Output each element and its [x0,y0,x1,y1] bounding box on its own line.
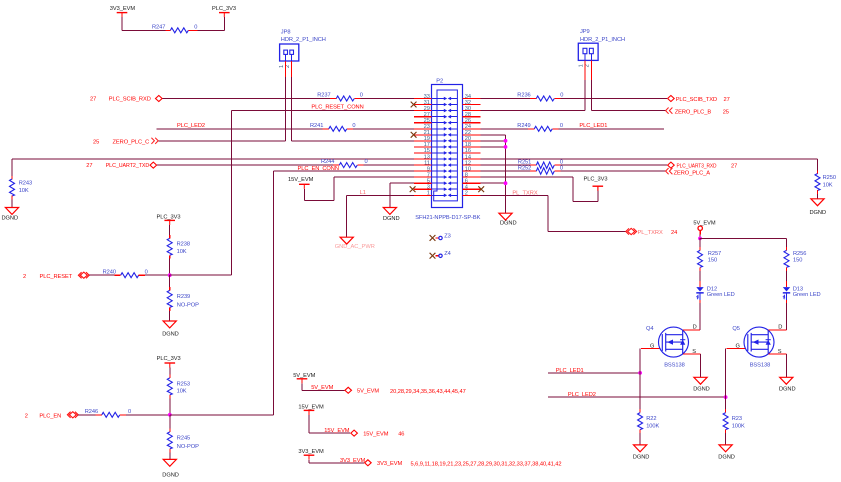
svg-text:0: 0 [352,123,355,129]
wire D12 to Q4 drain [699,303,701,330]
svg-text:29: 29 [424,106,430,112]
JP8 pin 2 square [290,50,294,54]
wire R252 to ZERO_PLC_A port [561,170,666,172]
junction PLC_LED1/Q4 gate [638,371,642,375]
wire P2 pin12 to R251 [481,164,531,166]
wire JP8 pin 2 to P2 pin 19 [292,140,415,142]
wire R238 to junction [169,259,171,276]
svg-text:PLC_RESET_CONN: PLC_RESET_CONN [311,105,363,111]
P2 pin 22 (right) stub and arrow [463,134,481,136]
svg-text:25: 25 [93,139,99,145]
svg-text:Z4: Z4 [444,251,451,257]
wire gate junction down to R22 [639,373,641,409]
resistor R243 10K [11,176,13,179]
LED D12 Green LED [699,281,701,287]
wire pin8 down [572,177,574,201]
wire ZERO_PLC_C to JP8 pin 1 [158,140,285,142]
wire 5V_EVM down [301,383,303,390]
P2 pin 6 (right) stub and arrow [463,182,481,184]
wire R23 to DGND [725,433,727,445]
svg-text:PLC_EN: PLC_EN [39,414,61,420]
resistor resistor R236 0 ohm [530,98,536,100]
svg-text:R237: R237 [317,93,330,99]
P2 pin 2 (right) stub and arrow [463,194,481,196]
power symbol PLC_3V3 (above R253) [165,363,176,368]
wire Q5 source to DGND [785,354,787,377]
P2 pin 33 (left) stub and arrow [414,98,432,100]
wire L1 to P2 pin 1 [347,194,414,196]
port PLC_SCIB_TXD (diamond) [668,96,675,102]
wire Q5 gate down to junction [725,349,727,398]
wire L1 vertical [346,195,348,237]
test point Z3 [436,237,439,239]
svg-text:100K: 100K [646,423,659,429]
svg-text:DGND: DGND [718,454,735,460]
svg-text:0: 0 [365,159,368,165]
svg-text:R246: R246 [85,409,98,415]
JP9 pin 2 square [589,48,593,53]
JP8 pin 2 lead [291,54,293,61]
svg-text:20: 20 [465,136,471,142]
svg-text:26: 26 [465,118,471,124]
wire P2 pin14 net long horizontal [481,158,818,160]
P2 pin 9 (left) stub and arrow [414,170,432,172]
wire up to PLC_3V3 [223,17,225,30]
svg-text:10K: 10K [177,389,187,395]
svg-text:NO-POP: NO-POP [177,303,199,309]
P2 pin 31 (left) stub and arrow [414,104,432,106]
junction pin18/DGND bus [504,145,508,149]
P2 pin 32 (right) stub and arrow [463,104,481,106]
wire 15V_EVM up [333,177,335,201]
junction 5V branch [698,237,702,241]
no-connect X for Z4 [430,253,436,259]
wire P2 pin6 to DGND bus [481,182,506,184]
Q5 source lead [769,353,787,355]
port PLC_UART2_TXD (diamond) [150,162,157,168]
jumper JP8 body [280,44,299,61]
svg-text:4: 4 [465,185,468,191]
svg-text:GND_AC_PWR: GND_AC_PWR [335,244,375,250]
resistor R239 NO-POP [169,287,171,290]
wire JP9 pin2 to ZERO_PLC_B port [591,110,665,112]
svg-text:DGND: DGND [779,386,796,392]
P2 pin 21 (left) stub and arrow [414,134,432,136]
wire PL_TXRX to port [548,231,626,233]
resistor R240 0 ohm [114,274,120,276]
svg-text:15V_EVM: 15V_EVM [363,432,389,438]
wire junction down to R245 [169,415,171,429]
svg-text:0: 0 [560,123,563,129]
svg-text:3: 3 [427,185,430,191]
svg-text:PLC_3V3: PLC_3V3 [157,356,181,362]
svg-text:2: 2 [465,191,468,197]
wire R250 to DGND [817,194,819,199]
svg-text:PL_TXRX: PL_TXRX [638,230,663,236]
wire DGND bus vertical [505,135,507,213]
resistor R246 0 ohm [96,414,102,416]
svg-text:R22: R22 [646,416,656,422]
svg-text:1: 1 [427,191,430,197]
svg-text:R252: R252 [518,165,531,171]
wire PLC_SCIB_RXD to R237 [163,98,330,100]
resistor R250 10K [817,171,819,174]
svg-text:3V3_EVM: 3V3_EVM [377,461,403,467]
power symbol 5V_EVM (rail) [297,379,308,384]
wire R247 to PLC_3V3 [198,29,225,31]
svg-text:R243: R243 [19,180,32,186]
svg-text:27: 27 [724,97,730,103]
power symbol PLC_3V3 (top left) [219,13,230,18]
wire 15V_EVM horizontal [304,200,334,202]
P2 pin 24 (right) stub and arrow [463,128,481,130]
svg-text:HDR_2_P1_INCH: HDR_2_P1_INCH [580,37,625,43]
svg-text:P2: P2 [436,79,443,85]
P2 pin 15 (left) stub and arrow [414,152,432,154]
wire gate junction down to R23 [725,397,727,409]
port ZERO_PLC_B (double chevron) [666,108,673,114]
svg-text:0: 0 [145,270,148,276]
resistor resistor R252 0 ohm [530,170,536,172]
P2 pin 28 (right) stub and arrow [463,116,481,118]
svg-text:20,28,29,34,35,36,43,44,45,47: 20,28,29,34,35,36,43,44,45,47 [390,389,466,395]
svg-text:HDR_2_P1_INCH: HDR_2_P1_INCH [281,37,326,43]
port 5V_EVM (diamond) [345,387,352,393]
P2 pin 8 (right) stub and arrow [463,176,481,178]
jumper JP9 body [578,43,598,60]
wire pin8 horizontal [573,200,598,202]
svg-text:Q5: Q5 [732,326,739,332]
resistor R256 150 [786,247,788,250]
connector P2 inner outline with key notch [434,90,458,201]
connector P2 outer body [432,85,463,208]
wire P2 pin22 to DGND bus [481,134,506,136]
port 3V3_EVM (diamond) [365,460,372,466]
junction PLC_EN node [168,413,172,417]
svg-text:15V_EVM: 15V_EVM [288,177,314,183]
wire R236 to PLC_SCIB_TXD port [561,98,667,100]
junction PLC_LED2/Q5 gate [724,395,728,399]
junction PLC_RESET node [168,273,172,277]
no-connect X on P2 pin 21 [411,132,417,138]
svg-text:R241: R241 [310,123,323,129]
wire R240 to junction [145,274,170,276]
svg-text:19: 19 [424,136,430,142]
svg-text:15V_EVM: 15V_EVM [324,428,350,434]
wire PLC_LED1 to Q4 gate node [548,372,640,374]
svg-text:5V_EVM: 5V_EVM [311,385,333,391]
ground GND_AC_PWR [340,237,353,244]
svg-text:PLC_3V3: PLC_3V3 [212,6,236,12]
wire PLC_EN to R246 [78,414,96,416]
wire PLC_EN_CONN vertical [273,171,275,415]
ground DGND (R245) [163,459,176,466]
svg-text:2: 2 [23,274,26,280]
wire P2 pin13 net long horizontal [12,158,414,160]
resistor resistor R251 0 ohm [530,164,536,166]
wire R237 to P2 pin 33 [361,98,414,100]
Q4 gate lead [641,348,659,350]
transistor Q4 BSS138 [659,327,689,357]
wire P2 pin24 to R249 [481,128,529,130]
resistor R247 0 ohm [165,29,170,31]
power symbol 15V_EVM (rail) [304,410,315,415]
svg-text:R245: R245 [177,436,190,442]
P2 pin 11 (left) stub and arrow [414,164,432,166]
ground DGND (Q4 source) [694,377,707,384]
svg-text:DGND: DGND [162,472,179,478]
wire PLC_RESET_CONN vertical [231,111,233,276]
resistor R241 0 ohm [323,128,329,130]
wire D13 to Q5 drain [786,303,788,330]
wire R244 to P2 pin 11 [364,164,414,166]
port 15V_EVM (diamond) [351,430,358,436]
P2 pin 34 (right) stub and arrow [463,98,481,100]
LED D13 Green LED [786,281,788,287]
svg-text:Green LED: Green LED [707,292,735,298]
svg-text:JP8: JP8 [281,30,291,36]
resistor R237 0 ohm [330,98,336,100]
svg-text:15: 15 [424,148,430,154]
wire P2 pin10 to R252 [481,170,531,172]
svg-text:R257: R257 [708,251,721,257]
Q5 gate lead [727,348,745,350]
wire 3V3_EVM down [308,460,310,463]
resistor R244 0 ohm [333,164,339,166]
svg-text:10K: 10K [19,188,29,194]
wire JP9 pin2 down to ZERO_PLC_B net [590,80,592,111]
JP8 pin 1 square [284,50,288,54]
junction pin20/DGND bus [504,139,508,143]
svg-text:R238: R238 [177,242,190,248]
svg-text:R253: R253 [177,381,190,387]
svg-text:0: 0 [360,93,363,99]
wire R253 to junction [169,398,171,415]
power symbol PLC_3V3 (right of P2) [597,186,599,190]
svg-text:5V_EVM: 5V_EVM [293,373,315,379]
P2 pin 7 (left) stub and arrow [414,176,432,178]
JP9 pin 2 lead [590,54,592,61]
svg-text:R249: R249 [517,123,530,129]
resistor R23 100K [725,409,727,412]
svg-text:3V3_EVM: 3V3_EVM [110,6,136,12]
wire R243 to DGND [11,200,13,208]
ground DGND (R239) [163,321,176,328]
svg-text:Q4: Q4 [646,326,653,332]
P2 pin 26 (right) stub and arrow [463,122,481,124]
svg-text:R240: R240 [103,270,116,276]
svg-text:DGND: DGND [693,386,710,392]
wire R251 to PLC_UART3_RXD port [561,164,667,166]
P2 pin 4 (right) stub and arrow [463,188,481,190]
svg-text:SFH21-NPPB-D17-SP-BK: SFH21-NPPB-D17-SP-BK [415,215,480,221]
svg-text:BSS138: BSS138 [664,362,685,368]
svg-text:DGND: DGND [162,332,179,338]
svg-text:Green LED: Green LED [793,292,821,298]
svg-text:14: 14 [465,154,471,160]
wire R246 to junction [126,414,170,416]
wire R22 to DGND [639,433,641,445]
wire R256 to D13 [786,271,788,281]
svg-text:5,6,9,11,18,19,21,23,25,27,28,: 5,6,9,11,18,19,21,23,25,27,28,29,30,31,3… [411,461,562,467]
svg-text:0: 0 [560,93,563,99]
svg-text:R236: R236 [517,93,530,99]
wire P2 pin 5 to DGND [390,182,414,184]
svg-text:31: 31 [424,100,430,106]
wire junction down to R239 [169,275,171,287]
port ZERO_PLC_A (double chevron) [666,168,673,174]
wire 15V_EVM down [303,189,305,201]
svg-text:R239: R239 [177,294,190,300]
P2 pin 12 (right) stub and arrow [463,164,481,166]
resistor resistor R249 0 ohm [528,128,534,130]
svg-text:100K: 100K [732,423,745,429]
wire JP9 pin1 down to P2 pin30 net [584,80,586,111]
power symbol 3V3_EVM (rail) [304,455,315,460]
wire pin5 DGND vertical [389,183,391,207]
svg-text:15V_EVM: 15V_EVM [298,404,324,410]
resistor R22 100K [639,409,641,412]
Q4 source lead [683,353,700,355]
wire 5V_EVM to port [302,389,344,391]
svg-text:PLC_3V3: PLC_3V3 [584,177,608,183]
Q5 drain lead [769,329,787,331]
svg-text:DGND: DGND [500,221,517,227]
P2 pin 19 (left) stub and arrow [414,140,432,142]
svg-text:ZERO_PLC_A: ZERO_PLC_A [674,171,711,177]
wire R239 to DGND [169,311,171,321]
svg-text:PLC_UART2_TXD: PLC_UART2_TXD [106,163,150,169]
wire PLC_LED2 to R241 [157,128,323,130]
svg-text:27: 27 [86,163,92,169]
wire PLC_EN_CONN to P2 pin 9 [274,170,415,172]
resistor R257 150 [699,247,701,250]
wire 5V to right branch [699,237,786,239]
wire P2 pin2 right [481,194,549,196]
ground DGND (R23) [719,445,732,452]
svg-text:DGND: DGND [633,454,650,460]
svg-text:2: 2 [25,414,28,420]
port ZERO_PLC_C (double chevron) [151,138,158,144]
svg-text:PLC_LED1: PLC_LED1 [579,123,607,129]
svg-text:BSS138: BSS138 [750,362,771,368]
wire 5V circle to junction [699,234,701,238]
no-connect X on P2 pin 31 [411,102,417,108]
wire R257 to D12 [699,271,701,281]
wire Q4 source to DGND [700,354,702,377]
svg-text:27: 27 [731,163,737,169]
wire P2 pin8 right [481,176,574,178]
svg-text:DGND: DGND [383,216,400,222]
svg-text:46: 46 [398,431,404,437]
svg-text:16: 16 [465,148,471,154]
wire 3V3_EVM to R247 [122,29,165,31]
P2 pin 5 (left) stub and arrow [414,182,432,184]
wire P2 pin20 to DGND bus [481,140,506,142]
wire 15V_EVM to P2 pin 7 [334,176,414,178]
svg-text:PLC_SCIB_TXD: PLC_SCIB_TXD [676,97,717,103]
svg-text:150: 150 [793,257,802,263]
svg-text:R23: R23 [732,416,742,422]
wire 15V_EVM down [308,415,310,433]
wire PLC_LED2 to Q5 gate node [548,396,726,398]
port PLC_RESET (bidirectional) [78,272,89,278]
svg-text:7: 7 [427,172,430,178]
no-connect X for Z3 [430,235,436,241]
P2 pin 3 (left) stub and arrow [414,188,432,190]
svg-text:ZERO_PLC_B: ZERO_PLC_B [675,110,712,116]
resistor R253 10K [169,375,171,378]
wire junction to PLC_EN_CONN vertical [170,414,274,416]
svg-text:0: 0 [194,25,197,31]
svg-text:JP9: JP9 [580,29,590,35]
P2 pin 23 (left) stub and arrow [414,128,432,130]
P2 pin 29 (left) stub and arrow [414,110,432,112]
svg-text:PLC_SCIB_RXD: PLC_SCIB_RXD [109,97,151,103]
svg-text:24: 24 [671,230,677,236]
wire down to R243 [11,159,13,176]
wire P2 pin34 to R236 [481,98,531,100]
P2 pin 17 (left) stub and arrow [414,146,432,148]
power symbol 15V_EVM [299,184,310,189]
svg-text:32: 32 [465,100,471,106]
svg-text:25: 25 [424,118,430,124]
wire R245 to DGND [169,452,171,459]
wire PLC_3V3 to R253 [169,368,171,375]
svg-text:R256: R256 [793,251,806,257]
P2 pin 25 (left) stub and arrow [414,122,432,124]
P2 pin 13 (left) stub and arrow [414,158,432,160]
wire PLC_UART2_TXD to R244 [157,164,333,166]
wire 5V down to R256 [786,238,788,247]
wire R241 to P2 pin 23 [353,128,414,130]
JP9 pin 1 square [583,48,587,53]
svg-text:PLC_RESET: PLC_RESET [40,274,73,280]
svg-text:DGND: DGND [810,210,827,216]
svg-text:R250: R250 [823,175,836,181]
svg-text:DGND: DGND [2,215,19,221]
svg-text:3V3_EVM: 3V3_EVM [298,449,324,455]
P2 pin 1 (left) stub and arrow [414,194,432,196]
resistor R238 10K [169,235,171,238]
P2 pin 10 (right) stub and arrow [463,170,481,172]
P2 pin 27 (left) stub and arrow [414,116,432,118]
ground DGND (Q5 source) [780,377,793,384]
Q4 drain lead [683,329,700,331]
svg-text:8: 8 [465,172,468,178]
wire PLC_RESET_CONN to P2 pin 29 [232,110,414,112]
svg-text:10K: 10K [823,182,833,188]
wire R249 PLC_LED1 stub [559,128,664,130]
wire 3V3_EVM to port [309,462,364,464]
svg-text:25: 25 [723,110,729,116]
JP8 pin 1 lead [285,54,287,61]
wire PLC_RESET to R240 [89,274,115,276]
svg-text:27: 27 [90,97,96,103]
svg-text:ZERO_PLC_C: ZERO_PLC_C [113,139,150,145]
svg-text:5V_EVM: 5V_EVM [357,389,379,395]
svg-text:10K: 10K [177,249,187,255]
port PLC_SCIB_RXD (diamond) [156,96,163,102]
svg-text:PLC_3V3: PLC_3V3 [157,214,181,220]
wire P2 pin30 to JP9 pin1 [481,110,586,112]
resistor R245 NO-POP [169,429,171,432]
port PLC_UART3_RXD (diamond) [668,162,675,168]
wire 5V down to R257 [699,238,701,247]
wire JP8 pin1 down to ZERO_PLC_C net [285,77,287,141]
ground DGND (pin 5) [383,208,396,215]
svg-text:13: 13 [424,154,430,160]
